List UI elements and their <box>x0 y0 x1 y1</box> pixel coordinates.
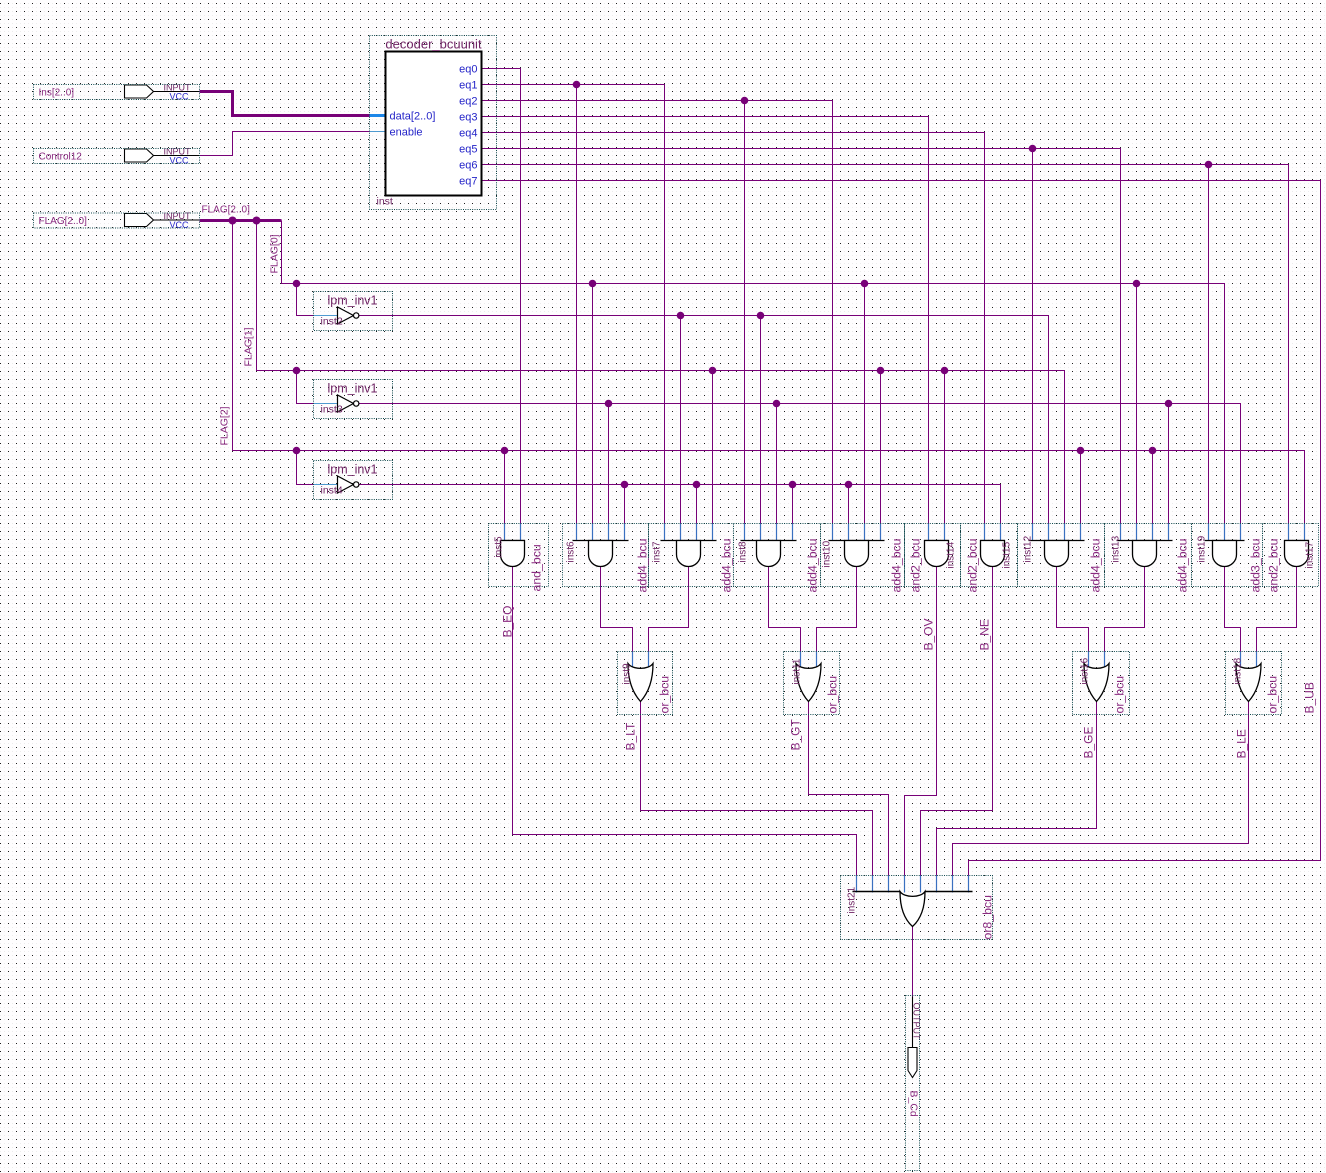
svg-text:B_UB: B_UB <box>1303 682 1317 713</box>
wire FLAG[1] drop x=880 <box>880 371 882 524</box>
wire bus FLAG[2..0] <box>200 219 282 222</box>
junction eq2 x=744 <box>741 97 749 105</box>
wire net FLAG[0] distribution <box>282 221 1225 524</box>
wire net eq5 <box>482 149 1121 524</box>
decoder pin stubs <box>370 114 386 117</box>
junction nFLAG2 x=696 <box>693 481 701 489</box>
svg-text:or8_bcu: or8_bcu <box>981 895 995 940</box>
junction FLAG[0] x=592 <box>589 280 597 288</box>
svg-text:FLAG[0]: FLAG[0] <box>269 234 281 273</box>
svg-text:eq4: eq4 <box>459 128 477 140</box>
wire nFLAG1 drop x=1168 <box>1168 404 1170 524</box>
svg-text:add4_bcu: add4_bcu <box>1176 538 1190 592</box>
svg-text:Control12: Control12 <box>39 152 83 163</box>
wire eq2 drop x=744 <box>744 101 746 524</box>
wire net FLAG[2] distribution <box>233 221 1305 524</box>
wire FLAG[1] drop x=712 <box>712 371 714 524</box>
wire inst17 out to or inst18 in2 <box>1257 567 1297 663</box>
wire or8 out to OUTPUT pin B_Cd <box>912 927 914 997</box>
wire FLAG[0] drop x=592 <box>592 284 594 524</box>
svg-text:inst4: inst4 <box>321 485 343 497</box>
svg-text:eq1: eq1 <box>459 80 477 92</box>
junction nFLAG1 x=608 <box>605 400 613 408</box>
svg-text:add3_bcu: add3_bcu <box>1249 538 1263 592</box>
svg-text:lpm_inv1: lpm_inv1 <box>327 382 377 396</box>
svg-text:lpm_inv1: lpm_inv1 <box>327 463 377 477</box>
svg-text:inst16: inst16 <box>1080 657 1091 684</box>
gate inst10 add4_bcu <box>829 541 885 567</box>
junction eq1 x=576 <box>573 81 581 89</box>
wire inst19 out to or inst18 in1 <box>1225 567 1241 663</box>
svg-text:inst21: inst21 <box>847 886 858 913</box>
svg-text:inst12: inst12 <box>1023 535 1034 562</box>
wire net eq4 <box>482 133 985 524</box>
svg-text:inst10: inst10 <box>822 540 833 567</box>
junction FLAG[1] at inverter tap <box>293 367 301 375</box>
or inst9 boundary <box>618 652 673 715</box>
wire nFLAG1 drop x=608 <box>608 404 610 524</box>
inverter input stubs <box>314 315 339 317</box>
svg-text:eq6: eq6 <box>459 160 477 172</box>
wire eq1 drop x=576 <box>576 85 578 524</box>
svg-text:inst2: inst2 <box>321 316 343 328</box>
OR gate input stubs <box>632 652 634 670</box>
svg-text:FLAG[2..0]: FLAG[2..0] <box>202 205 251 216</box>
wire FLAG[0] drop x=864 <box>864 284 866 524</box>
svg-text:enable: enable <box>390 127 423 139</box>
junction FLAG[0] x=864 <box>861 280 869 288</box>
wire net nFLAG1 (inst3 out) distribution <box>359 404 1241 524</box>
wire inst6 out to or inst9 in1 <box>601 567 633 663</box>
wire inst10 out to or inst11 in2 <box>817 567 857 663</box>
junction FLAG[1] x=880 <box>877 367 885 375</box>
junction nFLAG1 x=1168 <box>1165 400 1173 408</box>
wire net B_EQ <box>513 567 857 876</box>
wire nFLAG1 drop x=776 <box>776 404 778 524</box>
wire eq6 drop x=1208 <box>1208 165 1210 524</box>
svg-text:eq5: eq5 <box>459 144 477 156</box>
wire nFLAG2 drop x=624 <box>624 485 626 524</box>
gate inst14 and2_bcu <box>925 541 949 567</box>
svg-text:or_bcu: or_bcu <box>1113 676 1127 714</box>
junction FLAG[0] at inverter tap <box>293 280 301 288</box>
svg-text:and2_bcu: and2_bcu <box>909 538 923 592</box>
junction FLAG[0] x=1136 <box>1133 280 1141 288</box>
wire FLAG[2] drop x=1152 <box>1152 451 1154 524</box>
wire Control12 to decoder enable <box>200 132 373 156</box>
svg-text:or_bcu: or_bcu <box>658 676 672 714</box>
wire net eq3 <box>482 117 929 524</box>
junction nFLAG1 x=776 <box>773 400 781 408</box>
wire inst13 out to or inst16 in2 <box>1105 567 1145 663</box>
wire net B_LT <box>641 701 873 876</box>
or-gate inst21 or8_bcu <box>853 892 973 927</box>
gate inst15 and2_bcu <box>981 541 1005 567</box>
svg-text:and2_bcu: and2_bcu <box>966 538 980 592</box>
svg-text:inst8: inst8 <box>738 541 749 563</box>
gate inst8 add4_bcu <box>741 541 797 567</box>
junction FLAG[1] x=944 <box>941 367 949 375</box>
inverter inst3 lpm_inv1 boundary <box>314 380 393 419</box>
junction FLAG[2] x=1080 <box>1077 447 1085 455</box>
svg-text:inst18: inst18 <box>1233 657 1244 684</box>
junction FLAG bus tap FLAG[1] <box>253 217 261 225</box>
decoder U inst decoder_bcuunit <box>377 37 482 208</box>
inverter inst4 lpm_inv1 boundary <box>314 461 393 500</box>
wire FLAG[0] to inverter inst2 input <box>297 284 314 316</box>
svg-text:add4_bcu: add4_bcu <box>720 538 734 592</box>
svg-text:VCC: VCC <box>170 92 190 102</box>
svg-text:eq3: eq3 <box>459 112 477 124</box>
junction eq5 x=1032 <box>1029 145 1037 153</box>
gate row boundary box 6 <box>961 524 1018 587</box>
svg-text:B_GE: B_GE <box>1082 726 1096 758</box>
inverter inst4 lpm_inv1 <box>321 463 378 497</box>
wire net eq7 / B_UB <box>482 181 1321 876</box>
gate row boundary box 2 <box>649 524 734 587</box>
junction FLAG[2] x=504 <box>501 447 509 455</box>
inverter inst2 lpm_inv1 boundary <box>314 292 393 331</box>
wire nFLAG2 drop x=696 <box>696 485 698 524</box>
svg-text:add4_bcu: add4_bcu <box>806 538 820 592</box>
or-gate inst9 or_bcu <box>628 664 653 702</box>
or-gate inst11 or_bcu <box>796 664 821 702</box>
svg-text:data[2..0]: data[2..0] <box>390 111 436 123</box>
svg-text:inst14: inst14 <box>946 541 957 568</box>
wire nFLAG0 drop x=760 <box>760 316 762 524</box>
gate row boundary box 10 <box>1263 524 1319 587</box>
gate row boundary box 5 <box>905 524 961 587</box>
wire net B_GE <box>937 701 1097 876</box>
svg-text:inst9: inst9 <box>622 663 633 685</box>
svg-text:B_LE: B_LE <box>1235 729 1249 758</box>
or8 input stubs <box>856 876 858 893</box>
svg-text:add4_bcu: add4_bcu <box>636 538 650 592</box>
gate inst13 add4_bcu <box>1117 541 1173 567</box>
svg-text:B_NE: B_NE <box>978 619 992 650</box>
wire FLAG[2] drop x=1080 <box>1080 451 1082 524</box>
wire net eq2 <box>482 101 833 524</box>
svg-text:inst: inst <box>377 196 393 208</box>
gate row boundary box 9 <box>1192 524 1263 587</box>
inverter inst2 lpm_inv1 <box>321 294 378 328</box>
svg-text:eq0: eq0 <box>459 64 477 76</box>
or-gate inst16 or_bcu <box>1084 664 1109 702</box>
gate row boundary box 8 <box>1105 524 1192 587</box>
svg-text:VCC: VCC <box>170 220 190 230</box>
input pin FLAG[2..0] <box>34 211 200 230</box>
gate inst17 and2_bcu <box>1285 541 1309 567</box>
svg-text:inst3: inst3 <box>321 404 343 416</box>
junction FLAG[2] x=1152 <box>1149 447 1157 455</box>
or inst11 boundary <box>784 652 840 715</box>
or-gate inst18 or_bcu <box>1236 664 1261 702</box>
wire FLAG[1] drop x=944 <box>944 371 946 524</box>
gate inst12 add4_bcu <box>1029 541 1085 567</box>
or8 inst21 boundary <box>841 876 993 940</box>
output pin B_Cd <box>908 997 917 1078</box>
wire inst12 out to or inst16 in1 <box>1057 567 1089 663</box>
svg-text:and2_bcu: and2_bcu <box>1267 538 1281 592</box>
gate row boundary box 1 <box>563 524 649 587</box>
gate row boundary box 0 <box>489 524 549 587</box>
gate row boundary box 3 <box>734 524 821 587</box>
svg-text:inst5: inst5 <box>494 536 505 558</box>
AND gate row input stubs <box>504 524 506 541</box>
wire net FLAG[1] distribution <box>257 221 1065 524</box>
svg-text:FLAG[1]: FLAG[1] <box>243 327 255 366</box>
wire net B_NE <box>921 567 993 876</box>
svg-text:B_Cd: B_Cd <box>908 1091 920 1117</box>
wire net nFLAG2 (inst4 out) distribution <box>359 485 1001 524</box>
wire net B_LE <box>953 701 1249 876</box>
junction FLAG[1] x=712 <box>709 367 717 375</box>
wire nFLAG2 drop x=792 <box>792 485 794 524</box>
wire net eq1 <box>482 85 665 524</box>
junction nFLAG2 x=624 <box>621 481 629 489</box>
wire net B_OV <box>905 567 937 876</box>
or inst18 boundary <box>1226 652 1282 715</box>
wire bus Ins[2..0] to decoder data <box>200 92 373 116</box>
svg-text:or_bcu: or_bcu <box>826 676 840 714</box>
svg-text:or_bcu: or_bcu <box>1266 676 1280 714</box>
wire FLAG[2] drop x=504 <box>504 451 506 524</box>
wire FLAG[2] to inverter inst4 input <box>297 451 314 485</box>
svg-text:B_OV: B_OV <box>922 618 936 650</box>
junction nFLAG2 x=848 <box>845 481 853 489</box>
svg-text:decoder_bcuunit: decoder_bcuunit <box>385 37 482 52</box>
input pin Control12 <box>34 147 200 166</box>
wire eq5 drop x=1032 <box>1032 149 1034 524</box>
wire nFLAG2 drop x=848 <box>848 485 850 524</box>
svg-text:inst15: inst15 <box>1002 541 1013 568</box>
svg-text:add4_bcu: add4_bcu <box>1089 538 1103 592</box>
junction FLAG[2] at inverter tap <box>293 447 301 455</box>
svg-text:lpm_inv1: lpm_inv1 <box>327 294 377 308</box>
output pin boundary <box>906 996 920 1171</box>
svg-text:inst11: inst11 <box>792 658 803 684</box>
input pin Ins[2..0] <box>34 83 200 102</box>
junction nFLAG0 x=680 <box>677 312 685 320</box>
svg-text:add4_bcu: add4_bcu <box>890 538 904 592</box>
svg-text:inst7: inst7 <box>652 541 663 563</box>
svg-text:FLAG[2..0]: FLAG[2..0] <box>39 216 88 227</box>
wire net nFLAG0 (inst2 out) distribution <box>359 316 1049 524</box>
gate inst5 and_bcu <box>501 541 525 567</box>
wire net eq0 <box>482 69 521 524</box>
gate row boundary box 7 <box>1018 524 1105 587</box>
decoder selection boundary <box>370 36 497 210</box>
gate inst7 add4_bcu <box>661 541 717 567</box>
svg-text:inst6: inst6 <box>566 541 577 563</box>
or inst16 boundary <box>1073 652 1130 715</box>
gate inst6 add4_bcu <box>573 541 629 567</box>
wire net B_GT <box>809 701 889 876</box>
svg-text:VCC: VCC <box>170 156 190 166</box>
gate inst19 add3_bcu <box>1205 541 1245 567</box>
svg-text:and_bcu: and_bcu <box>530 544 544 591</box>
wire inst7 out to or inst9 in2 <box>649 567 689 663</box>
wire nFLAG0 drop x=680 <box>680 316 682 524</box>
svg-text:B_EQ: B_EQ <box>501 605 515 637</box>
wire FLAG[0] drop x=1136 <box>1136 284 1138 524</box>
wire FLAG[1] to inverter inst3 input <box>297 371 314 404</box>
wire net eq6 <box>482 165 1289 524</box>
wire inst8 out to or inst11 in1 <box>769 567 801 663</box>
junction eq6 x=1208 <box>1205 161 1213 169</box>
svg-text:eq7: eq7 <box>459 176 477 188</box>
junction FLAG bus tap FLAG[2] <box>229 217 237 225</box>
junction nFLAG2 x=792 <box>789 481 797 489</box>
junction nFLAG0 x=760 <box>757 312 765 320</box>
svg-text:Ins[2..0]: Ins[2..0] <box>39 88 75 99</box>
svg-text:inst19: inst19 <box>1197 535 1208 562</box>
inverter inst3 lpm_inv1 <box>321 382 378 416</box>
svg-text:inst17: inst17 <box>1305 541 1316 568</box>
gate row boundary box 4 <box>821 524 905 587</box>
svg-text:eq2: eq2 <box>459 96 477 108</box>
svg-text:inst13: inst13 <box>1111 535 1122 562</box>
svg-text:FLAG[2]: FLAG[2] <box>219 406 231 445</box>
svg-text:B_GT: B_GT <box>789 718 803 750</box>
svg-text:B_LT: B_LT <box>624 722 638 750</box>
